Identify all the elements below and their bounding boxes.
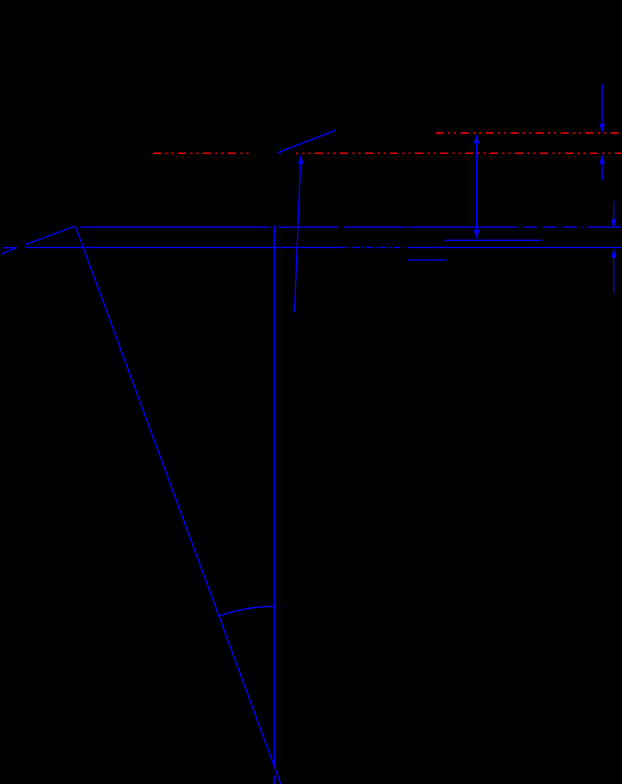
upper horizontal line right end solid — [587, 226, 622, 228]
inclined waterline segment a (far left) — [2, 248, 17, 254]
lower horizontal waterline dash-dot middle portion — [349, 247, 407, 249]
upper horizontal line seg 3 — [344, 226, 407, 228]
leader line L1 (slanted) — [295, 156, 301, 313]
inclined waterline segment c (upper right) — [278, 130, 336, 153]
heel angle arc — [219, 606, 274, 616]
water surface tick A — [445, 239, 542, 241]
water surface tick B — [408, 259, 446, 261]
right dimension upper shaft (red gap) — [601, 84, 603, 132]
lower horizontal waterline right run — [408, 247, 622, 249]
far right dimension lower shaft (blue gap) — [613, 250, 615, 294]
mast vertical bottom stub — [273, 776, 275, 784]
heeled axis line — [75, 226, 281, 784]
far right dimension lower arrowhead (up) — [611, 249, 616, 258]
upper horizontal line dashed right portion — [523, 226, 583, 228]
upper horizontal line seg 1 — [80, 226, 270, 228]
dimension D1 bottom arrowhead — [474, 230, 480, 239]
far right dimension upper shaft (blue gap) — [613, 202, 615, 228]
leader L1 arrowhead — [298, 154, 303, 164]
inclined waterline segment b (to apex) — [26, 226, 75, 244]
far right dimension upper arrowhead (down) — [611, 219, 616, 228]
lower horizontal waterline main run — [26, 247, 347, 249]
dimension D1 top arrowhead — [474, 134, 479, 143]
upper horizontal line seg 4 — [408, 226, 518, 228]
red centerline R2 (lower axis line, right run) — [296, 152, 622, 154]
dimension shaft D1 — [476, 136, 478, 237]
waterline WL left stub — [3, 247, 17, 249]
right dimension lower arrowhead (up) — [599, 155, 604, 164]
mast vertical line — [273, 225, 275, 766]
right dimension lower shaft (red gap) — [601, 156, 603, 181]
red centerline R1 (upper axis line) — [436, 132, 622, 134]
upper horizontal line seg 2 — [278, 226, 338, 228]
red centerline R2 (lower axis line, left run) — [153, 152, 252, 154]
right dimension upper arrowhead (down) — [599, 124, 604, 133]
